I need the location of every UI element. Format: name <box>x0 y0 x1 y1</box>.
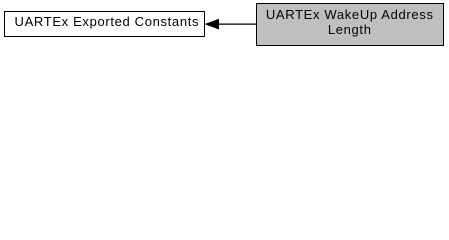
node: UARTEx Exported Constants <box>4 11 205 37</box>
wire: dependency edge <box>0 0 449 51</box>
node: UARTEx WakeUp Address Length (current group, grey fill) <box>256 3 444 47</box>
arrowhead <box>206 19 219 29</box>
